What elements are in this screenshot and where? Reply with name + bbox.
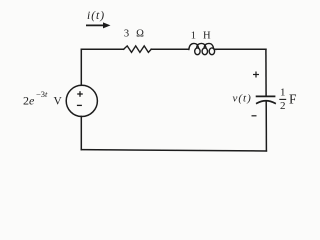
svg-text:2: 2 bbox=[280, 100, 286, 112]
svg-text:1: 1 bbox=[280, 87, 286, 99]
wire left upper vertical segment bbox=[80, 49, 82, 85]
svg-text:F: F bbox=[289, 91, 297, 106]
svg-text:v(t): v(t) bbox=[233, 92, 252, 104]
wire between resistor and inductor bbox=[151, 48, 189, 50]
wire top-left horizontal segment bbox=[81, 48, 123, 50]
voltage source minus sign bbox=[77, 104, 82, 106]
wire right lower vertical segment bbox=[265, 101, 267, 151]
wire left lower vertical segment bbox=[80, 116, 82, 149]
voltage source V1 circle bbox=[66, 85, 97, 116]
label 2e^-3t V bbox=[23, 89, 63, 107]
inductor L1 loops bbox=[195, 48, 215, 55]
resistor R1 (3 ohm) zigzag bbox=[124, 46, 152, 53]
svg-text:i(t): i(t) bbox=[87, 10, 105, 22]
capacitor minus polarity mark bbox=[252, 115, 257, 117]
svg-text:2e: 2e bbox=[23, 93, 35, 107]
capacitor C1 top plate bbox=[257, 95, 275, 97]
wire right upper vertical segment bbox=[265, 49, 267, 96]
wire bottom horizontal segment bbox=[81, 150, 266, 151]
capacitor C1 curved bottom plate bbox=[257, 101, 275, 104]
wire top-right horizontal segment bbox=[216, 48, 266, 50]
svg-text:1 H: 1 H bbox=[191, 31, 213, 42]
voltage source plus sign bbox=[77, 91, 83, 97]
current arrow for i(t) bbox=[86, 22, 111, 28]
label 1/2 F bbox=[279, 87, 297, 112]
svg-text:−3t: −3t bbox=[36, 89, 48, 99]
svg-text:3 Ω: 3 Ω bbox=[124, 29, 146, 40]
capacitor plus polarity mark bbox=[253, 72, 259, 78]
svg-text:V: V bbox=[54, 95, 63, 107]
inductor L1 (1 H) arches bbox=[189, 43, 216, 49]
